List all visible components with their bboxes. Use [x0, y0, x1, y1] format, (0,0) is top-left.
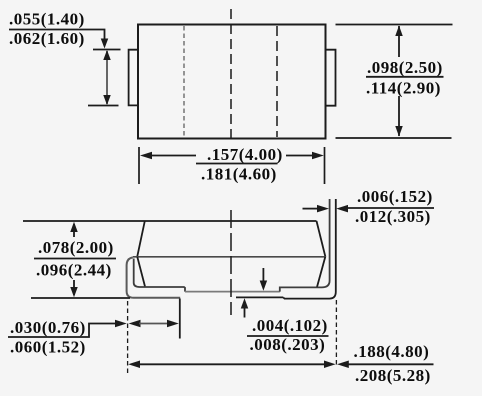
arrowhead down	[395, 126, 403, 137]
svg-text:.096(2.44): .096(2.44)	[36, 261, 112, 280]
arrowhead up	[103, 50, 111, 60]
vertical dimension line tab width	[106, 51, 108, 104]
inside arrow left	[129, 320, 141, 328]
fraction bar	[34, 258, 116, 260]
dashed extension line right lead edge	[335, 300, 337, 367]
fraction bar	[196, 163, 278, 165]
side view: right lead inner contour	[280, 199, 330, 292]
svg-text:.055(1.40): .055(1.40)	[9, 10, 85, 29]
svg-text:.062(1.60): .062(1.60)	[9, 29, 85, 48]
side view: seating extension line left	[31, 297, 130, 299]
side view: right lead outer contour	[283, 199, 336, 299]
top view: left terminal tab	[129, 50, 138, 106]
svg-text:.114(2.90): .114(2.90)	[366, 79, 441, 98]
side view: left lead inner contour	[134, 259, 185, 292]
svg-text:.098(2.50): .098(2.50)	[367, 58, 443, 77]
side view: body right upper slant	[317, 221, 326, 257]
dashed extension line left lead edge	[127, 301, 129, 373]
svg-text:.208(5.28): .208(5.28)	[355, 366, 431, 385]
side view: body left lower slant	[137, 257, 145, 287]
leader arrowhead down	[101, 39, 109, 49]
svg-text:.030(0.76): .030(0.76)	[10, 318, 86, 337]
extension line bottom right	[336, 137, 452, 139]
dimension .157 line right segment	[286, 155, 314, 157]
dimension line	[139, 363, 325, 365]
arrowhead down	[103, 95, 111, 105]
dimension .006/.012: left-pointing arrow with fraction bar	[336, 205, 348, 213]
arrowhead up	[395, 26, 403, 37]
top view: package body outline	[138, 25, 326, 139]
dimension .006/.012: right-pointing arrow	[303, 208, 319, 210]
dimension .055/.062 fraction bar with leader	[9, 30, 105, 41]
side view: dashed centerline	[230, 210, 232, 315]
side view: mold parting line	[133, 256, 326, 258]
side view: center bottom line between leads	[185, 291, 280, 293]
side view: seating plane segment	[236, 296, 283, 298]
svg-text:.157(4.00): .157(4.00)	[207, 145, 283, 164]
dimension .078/.096: down arrow	[73, 280, 75, 295]
dimension .157 line left segment	[150, 155, 196, 157]
dimension .078/.096: up arrow	[73, 224, 75, 237]
side view: body right lower slant	[317, 257, 325, 287]
side view: top line body top edge with extensions	[23, 220, 317, 222]
dimension .098/.114 vertical line lower	[398, 96, 400, 136]
svg-text:.181(4.60): .181(4.60)	[201, 165, 277, 184]
svg-text:.006(.152): .006(.152)	[357, 187, 433, 206]
fraction bar	[247, 335, 329, 337]
svg-text:.188(4.80): .188(4.80)	[354, 342, 430, 361]
top view: dashed line right	[276, 26, 278, 137]
svg-text:.078(2.00): .078(2.00)	[38, 238, 114, 257]
top view: right terminal tab	[326, 50, 336, 106]
extension line left for .157	[138, 147, 140, 184]
tick line bottom	[88, 105, 119, 107]
dimension .004/.008: down arrow onto center line	[262, 268, 264, 288]
svg-text:.008(.203): .008(.203)	[250, 335, 326, 354]
fraction bar	[366, 76, 444, 78]
extension line right for .157	[324, 147, 326, 184]
top view: dashed centerline	[230, 9, 232, 138]
side view: body left upper slant	[137, 221, 145, 257]
inside arrow right	[324, 361, 336, 369]
fraction bar with leader up-right	[8, 324, 115, 338]
svg-text:.060(1.52): .060(1.52)	[10, 338, 86, 357]
dimension .188/.208: inside arrow left	[128, 361, 140, 369]
svg-text:.012(.305): .012(.305)	[355, 207, 431, 226]
inside arrow right	[167, 320, 179, 328]
dimension line to foot end	[139, 323, 170, 325]
arrowhead right	[312, 152, 324, 160]
leader arrowhead right at dashed line	[115, 320, 127, 328]
top view: gray dashed band line	[183, 26, 185, 137]
side view: left lead outer contour	[127, 257, 181, 297]
extension line top right	[336, 24, 453, 26]
svg-text:.004(.102): .004(.102)	[252, 316, 328, 335]
arrowhead left	[140, 152, 152, 160]
dimension .098/.114 vertical line upper	[398, 26, 400, 57]
extension line foot end	[179, 299, 181, 339]
tick line top	[93, 49, 121, 51]
outside arrow at right dashed line with fraction bar	[337, 361, 349, 369]
dimension .004/.008: up arrow under seating segment	[244, 301, 246, 318]
